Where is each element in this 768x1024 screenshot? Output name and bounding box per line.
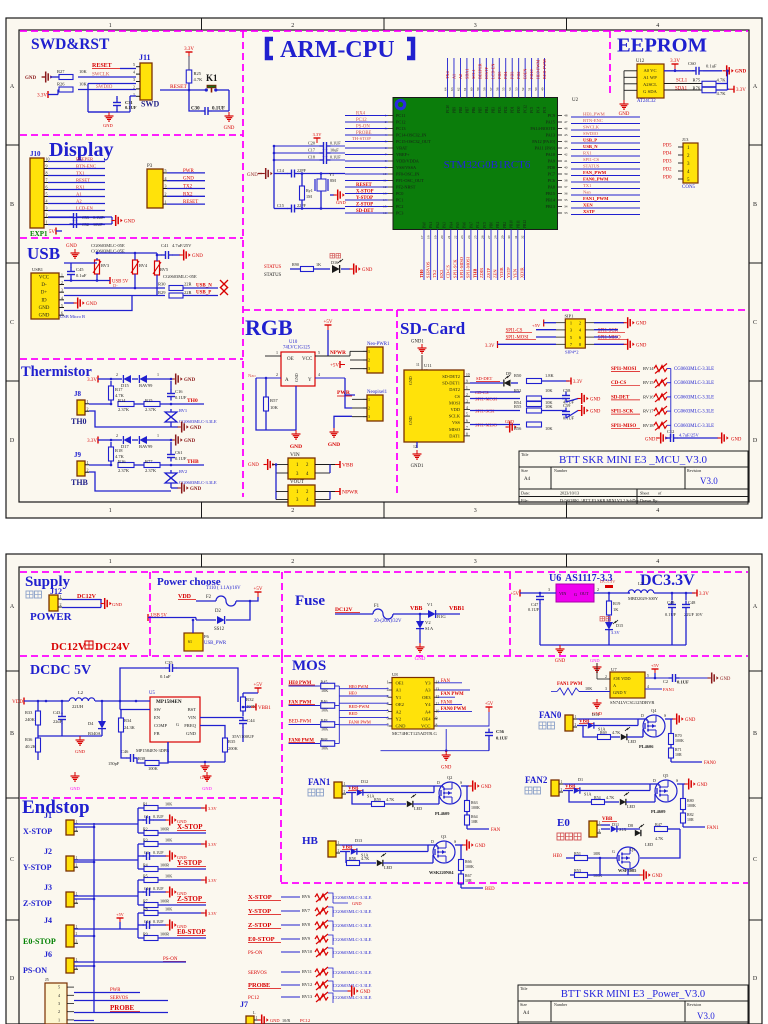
svg-text:100R: 100R: [160, 899, 169, 904]
svg-text:0.1uF: 0.1uF: [706, 64, 717, 69]
svg-text:V3.0: V3.0: [700, 476, 718, 486]
svg-text:4: 4: [61, 296, 63, 300]
svg-text:VOUT: VOUT: [290, 480, 304, 485]
svg-text:VBB1: VBB1: [449, 606, 464, 612]
svg-text:32: 32: [521, 235, 525, 239]
svg-text:PA3: PA3: [443, 222, 447, 228]
ground eeprom: [623, 100, 625, 104]
svg-text:R75: R75: [693, 78, 701, 83]
svg-text:PC3: PC3: [396, 211, 403, 216]
svg-text:22: 22: [454, 235, 458, 239]
svg-text:OE: OE: [287, 357, 294, 362]
svg-text:Revision: Revision: [687, 1002, 701, 1007]
svg-text:J13: J13: [682, 137, 689, 142]
resistor R52b 100K: [575, 873, 588, 878]
svg-text:3.3V: 3.3V: [573, 380, 583, 385]
svg-text:A4: A4: [524, 477, 531, 482]
svg-text:PD8: PD8: [547, 165, 555, 170]
svg-text:2: 2: [466, 393, 468, 397]
svg-text:240K: 240K: [25, 717, 36, 722]
svg-text:PWR: PWR: [183, 169, 195, 174]
svg-text:T110 ( 1.1A)/16V: T110 ( 1.1A)/16V: [206, 586, 241, 591]
svg-text:C60: C60: [688, 61, 696, 66]
svg-text:GND: GND: [112, 602, 123, 607]
svg-text:SPI1-CS: SPI1-CS: [583, 157, 600, 162]
gnd fuse: [419, 643, 421, 647]
svg-text:3.3V: 3.3V: [313, 132, 323, 137]
svg-text:PD1: PD1: [511, 106, 515, 113]
svg-text:D:\WORK\..\BTT E3 SKR MINI V3.: D:\WORK\..\BTT E3 SKR MINI V3.2.SchDoc: [560, 498, 640, 503]
svg-text:100R: 100R: [160, 827, 169, 832]
svg-text:PS-ON: PS-ON: [356, 125, 370, 130]
svg-text:0.1UF: 0.1UF: [153, 850, 164, 855]
svg-text:BED-PWM: BED-PWM: [289, 720, 312, 725]
svg-text:RV6: RV6: [302, 894, 311, 899]
capacitor C61 0.1UF: [170, 451, 172, 455]
svg-text:4.7K: 4.7K: [194, 77, 204, 82]
net VBB1 dcdc: [255, 704, 257, 711]
svg-text:C13: C13: [144, 919, 151, 924]
svg-text:SDA1: SDA1: [464, 69, 469, 79]
svg-text:22R: 22R: [184, 290, 192, 295]
svg-text:2: 2: [561, 788, 563, 792]
svg-text:22R: 22R: [184, 282, 192, 287]
svg-text:2: 2: [368, 406, 370, 411]
svg-text:0.1UF: 0.1UF: [496, 736, 508, 741]
svg-text:PC4: PC4: [537, 107, 541, 113]
svg-text:SD-DET2: SD-DET2: [442, 374, 460, 379]
svg-text:1: 1: [575, 715, 577, 719]
svg-text:A1: A1: [451, 74, 456, 79]
svg-text:1: 1: [61, 273, 63, 277]
svg-text:5: 5: [466, 413, 468, 417]
svg-text:BAV99: BAV99: [139, 383, 153, 388]
resistor R35 200K: [223, 738, 228, 752]
svg-text:100K: 100K: [465, 864, 474, 869]
svg-text:PA11 [PA9]: PA11 [PA9]: [535, 146, 556, 151]
svg-text:38: 38: [564, 179, 568, 183]
svg-text:GND: GND: [685, 718, 696, 723]
svg-text:2: 2: [61, 281, 63, 285]
svg-text:10K: 10K: [321, 708, 328, 713]
svg-text:9: 9: [466, 380, 468, 384]
svg-text:BTN-ENC: BTN-ENC: [76, 164, 96, 169]
svg-text:11: 11: [416, 363, 420, 367]
svg-text:GND: GND: [408, 416, 413, 425]
capacitor C15 22PF: [288, 208, 292, 210]
svg-text:MOSI: MOSI: [449, 400, 461, 405]
svg-text:+5V: +5V: [485, 702, 494, 707]
svg-text:Y1: Y1: [329, 172, 334, 177]
wire usb gnd loop: [64, 296, 132, 311]
svg-text:PROBE: PROBE: [110, 1004, 134, 1012]
rgb pin wires: [265, 355, 281, 357]
svg-text:1: 1: [466, 386, 468, 390]
svg-text:D: D: [753, 976, 758, 982]
caps C20 C17 C18: [274, 145, 320, 147]
svg-text:2: 2: [116, 372, 118, 377]
svg-text:0.1UF: 0.1UF: [677, 680, 689, 685]
svg-text:FAN0: FAN0: [704, 761, 716, 766]
svg-text:GND: GND: [39, 314, 50, 319]
svg-text:BED: BED: [485, 887, 495, 892]
svg-text:P3: P3: [147, 164, 153, 169]
svg-text:F2: F2: [206, 595, 212, 600]
svg-text:1: 1: [599, 821, 601, 825]
svg-text:2: 2: [605, 675, 607, 679]
svg-text:A1: A1: [396, 688, 402, 693]
capacitor C59 0.1UF: [541, 410, 566, 412]
svg-text:10R: 10R: [687, 817, 694, 822]
svg-text:D15: D15: [616, 623, 623, 628]
svg-text:48: 48: [564, 114, 568, 118]
svg-text:2: 2: [597, 587, 599, 592]
svg-text:R57: R57: [270, 398, 278, 403]
svg-text:E0-STOP: E0-STOP: [177, 928, 206, 936]
connector FAN0: [565, 715, 573, 731]
mosfet Q2 PL4609: [439, 782, 461, 804]
svg-text:TH0: TH0: [187, 398, 198, 404]
svg-text:GND: GND: [590, 658, 600, 663]
svg-text:GND: GND: [124, 220, 135, 225]
eeprom left bus wires: [624, 70, 637, 72]
svg-text:GND: GND: [352, 901, 362, 906]
MCU top pins: [447, 58, 449, 98]
svg-text:35V/100UF: 35V/100UF: [232, 734, 254, 739]
svg-text:0.1uF: 0.1uF: [160, 674, 171, 679]
svg-text:SCL1: SCL1: [471, 69, 476, 79]
wires USB top rail: [64, 262, 97, 264]
svg-text:4.7K: 4.7K: [361, 856, 369, 861]
resistor R8 10K: [138, 912, 144, 914]
U8 output rows: [438, 682, 463, 684]
svg-text:5: 5: [165, 168, 167, 173]
svg-text:C43: C43: [53, 710, 61, 715]
svg-text:GND: GND: [25, 76, 37, 81]
svg-text:Y1: Y1: [396, 695, 402, 700]
svg-text:PD2: PD2: [663, 168, 672, 173]
ground GND left: [42, 76, 45, 78]
svg-text:USB_P: USB_P: [583, 138, 597, 143]
svg-text:PS-ON: PS-ON: [23, 966, 47, 975]
net D- row: [64, 287, 165, 289]
svg-text:EEPROM: EEPROM: [617, 35, 707, 57]
svg-text:YSTP: YSTP: [506, 267, 511, 278]
crystal wires: [320, 174, 322, 180]
svg-text:4.7K: 4.7K: [717, 91, 727, 96]
svg-text:10K: 10K: [165, 838, 172, 843]
svg-text:ARM-CPU: ARM-CPU: [280, 37, 395, 63]
gnd endstop row: [166, 924, 169, 926]
svg-text:VDD/VDDA: VDD/VDDA: [396, 159, 420, 164]
svg-text:FB: FB: [154, 731, 160, 736]
svg-text:VSS/VSSA: VSS/VSSA: [396, 165, 417, 170]
svg-text:24.3K: 24.3K: [124, 725, 136, 730]
svg-text:S1A: S1A: [584, 792, 591, 797]
resistor R64 10R: [465, 815, 470, 825]
svg-text:53: 53: [515, 87, 519, 91]
svg-text:A: A: [10, 84, 15, 90]
svg-text:EXP1: EXP1: [30, 230, 48, 238]
svg-text:10K: 10K: [321, 688, 328, 693]
svg-text:FAN1: FAN1: [308, 777, 331, 787]
svg-text:R54: R54: [594, 795, 601, 800]
svg-text:28: 28: [494, 235, 498, 239]
svg-text:4.7K: 4.7K: [386, 797, 394, 802]
svg-text:1: 1: [165, 199, 167, 204]
svg-text:CG0603MLC-3.3LE: CG0603MLC-3.3LE: [333, 923, 372, 928]
svg-text:S: S: [664, 713, 666, 718]
svg-text:FAN2: FAN2: [525, 775, 548, 785]
svg-text:GND: GND: [619, 112, 630, 117]
power 3.3V K1: [186, 51, 193, 53]
svg-text:C45: C45: [76, 267, 84, 272]
varistor RV1: [165, 412, 177, 422]
svg-text:10K: 10K: [79, 69, 88, 74]
svg-text:BTT SKR MINI E3 _Power_V3.0: BTT SKR MINI E3 _Power_V3.0: [561, 989, 705, 1000]
mosfet drain wire: [658, 784, 660, 786]
svg-text:DC12V: DC12V: [51, 641, 86, 653]
resistor R66 100K: [460, 845, 462, 859]
svg-text:5: 5: [61, 304, 63, 308]
svg-text:PB5: PB5: [478, 107, 482, 113]
svg-text:57: 57: [489, 87, 493, 91]
svg-text:2: 2: [338, 849, 340, 853]
svg-text:10: 10: [466, 373, 470, 377]
svg-text:SPI1-MOSI: SPI1-MOSI: [466, 256, 471, 278]
svg-text:Size: Size: [521, 468, 528, 473]
diode D4 B340A: [98, 721, 106, 729]
svg-text:22UH: 22UH: [72, 704, 84, 709]
svg-text:PA6: PA6: [463, 222, 467, 228]
svg-text:PA7: PA7: [469, 222, 473, 228]
svg-text:R51: R51: [574, 851, 581, 856]
svg-text:RX1: RX1: [76, 185, 85, 190]
page frame: [6, 18, 762, 518]
gnd1 below U11: [416, 442, 418, 448]
svg-text:0.1UF: 0.1UF: [330, 155, 341, 160]
svg-text:D-: D-: [41, 283, 47, 288]
svg-text:51: 51: [528, 87, 532, 91]
svg-text:3: 3: [466, 399, 468, 403]
svg-text:SERVOS: SERVOS: [248, 971, 267, 976]
svg-text:R34: R34: [124, 718, 132, 723]
svg-text:U2: U2: [572, 98, 579, 103]
svg-text:D8: D8: [628, 823, 633, 828]
svg-text:6: 6: [387, 717, 389, 721]
svg-text:CG0603MLC-3.3LE: CG0603MLC-3.3LE: [674, 381, 714, 386]
svg-text:64: 64: [444, 87, 448, 91]
svg-text:SD-Card: SD-Card: [400, 319, 466, 338]
gnd E0: [588, 874, 640, 876]
svg-text:THB: THB: [187, 459, 199, 465]
svg-text:1: 1: [256, 1016, 258, 1020]
svg-text:5: 5: [647, 674, 649, 678]
svg-text:20: 20: [440, 235, 444, 239]
svg-text:GND: GND: [294, 373, 299, 382]
svg-text:J10: J10: [30, 150, 41, 158]
svg-text:RED-PWM: RED-PWM: [542, 59, 547, 79]
svg-text:R32: R32: [246, 697, 254, 702]
svg-text:Endstop: Endstop: [22, 797, 90, 818]
3.3V endstop: [205, 805, 207, 812]
svg-text:MP1584EN-3DPB: MP1584EN-3DPB: [136, 748, 169, 753]
svg-text:FAN0 PWM: FAN0 PWM: [349, 719, 371, 724]
svg-text:40.2K: 40.2K: [25, 744, 37, 749]
svg-text:GND: GND: [636, 322, 647, 327]
svg-text:USB1: USB1: [32, 267, 43, 272]
svg-text:GND: GND: [248, 463, 259, 468]
svg-text:54: 54: [508, 87, 512, 91]
capacitor C31 0.1UF: [116, 99, 118, 103]
svg-text:GND: GND: [336, 200, 346, 205]
svg-text:Nao: Nao: [248, 373, 256, 378]
diode D14 S1A: [577, 718, 638, 720]
svg-text:52: 52: [521, 87, 525, 91]
svg-text:26: 26: [480, 235, 484, 239]
svg-text:2: 2: [291, 508, 294, 514]
svg-text:Y-STOP: Y-STOP: [23, 863, 52, 872]
svg-text:2.37K: 2.37K: [145, 468, 157, 473]
svg-text:CON5: CON5: [682, 185, 696, 190]
svg-text:PB15: PB15: [545, 191, 555, 196]
svg-text:SS12: SS12: [214, 627, 225, 632]
capacitor C48 22UF 10V: [685, 601, 687, 605]
svg-text:PA0: PA0: [423, 222, 427, 228]
svg-text:1: 1: [76, 925, 78, 929]
capacitor C33 0.1UF: [48, 216, 70, 218]
svg-text:2: 2: [291, 23, 294, 29]
svg-text:GND: GND: [103, 123, 113, 128]
svg-text:NPWR: NPWR: [342, 490, 358, 496]
svg-text:VIN: VIN: [290, 452, 300, 458]
svg-text:+5V: +5V: [510, 592, 519, 597]
resistor R25 4.7K: [188, 56, 190, 70]
svg-text:R35: R35: [228, 739, 236, 744]
resistor R14 2.37K: [118, 402, 134, 407]
svg-text:SPI1-SCK: SPI1-SCK: [452, 259, 457, 278]
svg-text:HB: HB: [302, 835, 319, 847]
regulator U6 magenta: [556, 584, 594, 602]
svg-text:PC10: PC10: [446, 105, 450, 113]
svg-text:VBB1: VBB1: [258, 706, 271, 711]
svg-text:4: 4: [133, 70, 135, 75]
svg-text:4.7K: 4.7K: [717, 78, 727, 83]
power +5V rgb: [325, 324, 332, 326]
LED D15 red: [600, 617, 605, 622]
svg-text:R4: R4: [143, 863, 148, 868]
svg-text:GND: GND: [731, 438, 742, 443]
svg-text:FAN0: FAN0: [539, 710, 562, 720]
svg-text:R55: R55: [514, 404, 522, 409]
svg-text:GND: GND: [39, 306, 50, 311]
svg-text:GND: GND: [247, 173, 258, 178]
svg-text:J7: J7: [240, 1000, 248, 1009]
svg-text:1: 1: [570, 321, 572, 326]
svg-text:3: 3: [61, 289, 63, 293]
net D+ row: [64, 295, 165, 297]
svg-text:1: 1: [58, 1017, 60, 1022]
svg-text:PL4609: PL4609: [651, 809, 666, 814]
svg-text:1: 1: [157, 433, 159, 438]
svg-text:5: 5: [318, 350, 320, 355]
svg-text:PA12 [PA10]: PA12 [PA10]: [532, 139, 555, 144]
svg-text:+5V: +5V: [324, 320, 333, 325]
svg-text:U10: U10: [289, 340, 298, 345]
svg-text:10K: 10K: [545, 388, 553, 393]
svg-text:J1: J1: [44, 811, 52, 820]
title block page1: [519, 451, 748, 504]
svg-text:PB13: PB13: [545, 204, 555, 209]
svg-text:PC14-OSC32_IN: PC14-OSC32_IN: [396, 133, 426, 138]
svg-text:4: 4: [656, 508, 659, 514]
svg-text:D: D: [10, 976, 15, 982]
mosfet Q3 WSK220N04: [433, 841, 455, 863]
svg-text:10K: 10K: [585, 686, 592, 691]
svg-text:R50: R50: [514, 373, 522, 378]
svg-text:GND: GND: [360, 990, 371, 995]
connector E0: [589, 821, 597, 837]
svg-text:E0-STOP: E0-STOP: [248, 936, 275, 943]
capacitor C1 0.1UF: [137, 808, 139, 833]
svg-text:PD2: PD2: [504, 106, 508, 113]
svg-text:PB10: PB10: [510, 220, 514, 228]
svg-text:DAT2: DAT2: [449, 387, 460, 392]
capacitor C32 10UF: [70, 223, 74, 225]
svg-text:1: 1: [46, 220, 48, 225]
svg-text:1: 1: [368, 397, 370, 402]
svg-text:R36: R36: [25, 737, 33, 742]
svg-text:3: 3: [58, 1001, 60, 1006]
svg-text:10K: 10K: [165, 802, 172, 807]
svg-text:3: 3: [368, 414, 370, 419]
svg-text:U11: U11: [424, 363, 432, 368]
svg-text:5: 5: [58, 985, 60, 990]
U7 +5V and C2: [652, 668, 659, 670]
svg-text:3.3V: 3.3V: [699, 592, 709, 597]
svg-text:2.37K: 2.37K: [145, 407, 157, 412]
svg-text:R30: R30: [158, 282, 166, 287]
svg-text:PD3: PD3: [663, 160, 672, 165]
svg-text:V2: V2: [425, 620, 431, 625]
svg-text:PC12: PC12: [524, 105, 528, 113]
display net labels: [48, 161, 105, 163]
svg-text:E0: E0: [557, 817, 570, 829]
net FAN: [466, 825, 468, 829]
svg-text:Thermistor: Thermistor: [21, 364, 92, 380]
svg-text:4: 4: [647, 685, 649, 689]
svg-text:0.1UF: 0.1UF: [153, 919, 164, 924]
svg-text:PA10: PA10: [546, 152, 555, 157]
svg-text:4: 4: [387, 702, 389, 706]
svg-text:3: 3: [548, 587, 550, 592]
svg-text:C44: C44: [247, 718, 255, 723]
svg-text:G SDA: G SDA: [643, 89, 657, 94]
svg-text:D14: D14: [592, 712, 600, 717]
varistor RV2: [165, 473, 177, 483]
svg-text:50: 50: [534, 87, 538, 91]
svg-text:0.1UF: 0.1UF: [153, 814, 164, 819]
svg-text:E0EN: E0EN: [523, 69, 528, 79]
svg-text:C15: C15: [277, 203, 284, 208]
mosfet drain wire: [442, 786, 444, 788]
svg-text:GND: GND: [735, 70, 747, 75]
svg-text:U6: U6: [549, 573, 561, 584]
wire Y to Neopixel: [345, 378, 355, 395]
svg-text:GND: GND: [224, 126, 235, 131]
svg-text:FAN1 PWM: FAN1 PWM: [557, 682, 583, 687]
svg-text:SWD&RST: SWD&RST: [31, 36, 110, 53]
